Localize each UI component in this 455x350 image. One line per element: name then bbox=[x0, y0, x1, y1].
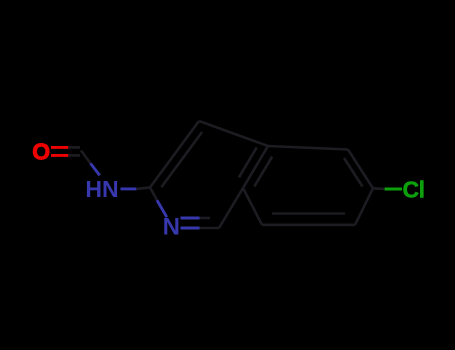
bond C3''=C4'' inner bbox=[344, 158, 363, 187]
svg-text:Cl: Cl bbox=[403, 177, 425, 203]
bond C4-C5 (shared edge with phenyl) bbox=[243, 146, 268, 188]
bond C6''-C1'' bbox=[243, 188, 262, 225]
bond C2=C3 inner bbox=[161, 132, 202, 187]
bond N amide - C2, blue half bbox=[121, 187, 137, 190]
bond N amide - C2, gray half bbox=[136, 187, 150, 189]
bond C2-N1, gray half bbox=[150, 187, 157, 200]
bond O=C1 double, red part bbox=[51, 147, 68, 155]
bond C1-N amide, blue half bbox=[91, 163, 100, 175]
pyridine ring gray bonds bbox=[150, 121, 268, 228]
bond C1''=C2'' inner, phenyl side bbox=[254, 157, 272, 187]
atom O label bbox=[32, 139, 50, 165]
bond C3-C4 bbox=[199, 121, 268, 146]
svg-text:HN: HN bbox=[85, 176, 118, 202]
bond C3''-C4'' bbox=[348, 150, 373, 189]
bond C2''-C3'' top edge bbox=[268, 146, 348, 150]
bond C4''-Cl, green half bbox=[385, 188, 402, 191]
atom Cl label bbox=[403, 177, 425, 203]
atom HN label bbox=[85, 176, 118, 202]
bond C1-N amide, gray half bbox=[81, 151, 91, 164]
bond C5''-C6'' bottom edge bbox=[262, 224, 355, 227]
bond C4''-C5'' bbox=[355, 188, 373, 225]
atom N1 pyridine label bbox=[163, 214, 180, 241]
bond N1=C6 main, gray part bbox=[200, 227, 220, 230]
bond C2-N1, blue half bbox=[157, 200, 167, 217]
bond C4''-Cl, gray half bbox=[373, 187, 385, 190]
bond C2-C3 bbox=[150, 121, 199, 187]
bond O=C1 double, gray part bbox=[68, 147, 80, 155]
phenyl ring gray bonds bbox=[243, 146, 373, 225]
svg-text:N: N bbox=[163, 214, 180, 241]
bond C4=C5 inner, pyridine side bbox=[239, 147, 257, 177]
bond C5-C6 bbox=[219, 188, 243, 228]
bond N1=C6 inner, blue part bbox=[181, 217, 200, 220]
svg-text:O: O bbox=[32, 139, 50, 165]
bond N1=C6 main, blue part bbox=[181, 227, 200, 230]
bond N1=C6 inner, gray part bbox=[200, 217, 211, 220]
bond C5''=C6'' inner bbox=[272, 212, 345, 215]
